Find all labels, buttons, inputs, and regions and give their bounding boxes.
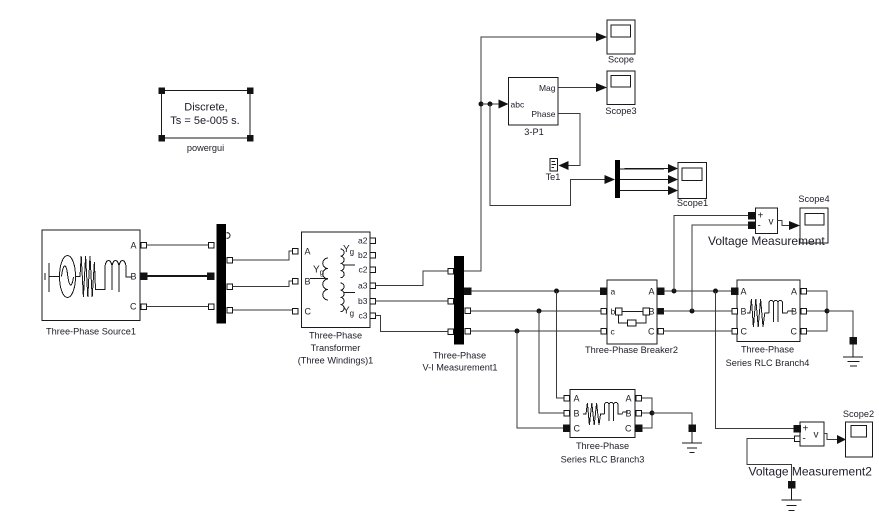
- svg-text:c2: c2: [359, 265, 368, 275]
- svg-text:b3: b3: [358, 296, 368, 306]
- svg-text:Ts = 5e-005 s.: Ts = 5e-005 s.: [170, 115, 239, 127]
- arrow 3 into Scope1: [668, 186, 678, 195]
- VI measurement bar VI1: [454, 256, 464, 345]
- source port A square: [141, 242, 147, 248]
- mux bar M1: [217, 224, 227, 324]
- svg-text:abc: abc: [511, 100, 525, 110]
- VI1 right port C: [465, 328, 471, 334]
- RLC3 port A left square: [564, 395, 570, 401]
- wire RLC3 outputs joined: [642, 398, 652, 428]
- ground G3 symbol: [682, 431, 702, 452]
- svg-text:C: C: [305, 307, 312, 317]
- breaker port B square (filled): [658, 308, 664, 314]
- svg-text:Series RLC Branch4: Series RLC Branch4: [726, 358, 810, 368]
- svg-text:a: a: [611, 287, 616, 297]
- breaker port b square: [601, 308, 607, 314]
- scope block Scope: [607, 20, 635, 54]
- node junction A-line down to VM2: [713, 289, 718, 294]
- wire VM2 output to Scope2: [824, 434, 838, 440]
- svg-text:Mag: Mag: [539, 83, 556, 93]
- node junction c-line to RLC3 C: [515, 329, 520, 334]
- transformer port B square: [292, 278, 298, 284]
- transformer port a2 square: [370, 238, 376, 244]
- breaker block BRK2: [607, 280, 657, 344]
- mux M1 left port A: [208, 242, 214, 248]
- arrow 2 into Scope1: [668, 175, 678, 184]
- powergui selection handles: [159, 88, 253, 141]
- wire breaker A to RLC4 A: [664, 290, 731, 292]
- label Three-Phase V-I Measurement1: [422, 351, 497, 373]
- wire transformer b3 to VI measurement: [375, 300, 448, 302]
- svg-text:c3: c3: [359, 311, 368, 321]
- svg-text:Discrete,: Discrete,: [184, 102, 227, 114]
- breaker port A square (filled): [657, 288, 664, 295]
- RLC4 icon resistor and inductor: [747, 299, 794, 327]
- wire breaker B to RLC4 B: [664, 310, 732, 312]
- scope block Scope4: [800, 208, 828, 243]
- three-phase source block SRC1: [42, 230, 140, 321]
- wire 3-P1 Mag to Scope3: [558, 87, 596, 89]
- wire VI1 C to breaker c: [470, 330, 601, 332]
- wire VM1 output to Scope4: [777, 221, 789, 226]
- wire breaker C to RLC4 C: [664, 330, 732, 332]
- scope block Scope1: [678, 163, 707, 199]
- svg-text:Scope: Scope: [608, 55, 634, 65]
- wire VM1 minus down to B-line: [692, 225, 748, 311]
- mux M1 right port b: [227, 284, 233, 290]
- transformer winding 2 (right top coil): [341, 249, 356, 278]
- svg-text:A: A: [625, 394, 631, 404]
- scope block Scope3: [607, 71, 635, 105]
- VI1 right port B: [465, 308, 471, 314]
- wire mux1 c to transformer C: [232, 310, 292, 311]
- wire transformer c3 to VI measurement: [375, 316, 448, 332]
- wire mux1 b to transformer B: [232, 281, 292, 287]
- label Three-Phase Series RLC Branch3: [561, 441, 645, 465]
- svg-text:A: A: [791, 287, 797, 297]
- wire source A to mux1: [147, 244, 209, 246]
- breaker port C square: [658, 328, 664, 334]
- svg-text:Three-Phase Source1: Three-Phase Source1: [46, 327, 136, 337]
- RLC4 port C left square: [732, 328, 738, 334]
- mux M1 left port C: [208, 304, 214, 310]
- node junction A-line to voltage measurement plus: [672, 289, 677, 294]
- transformer winding 1 (left coil): [310, 258, 328, 300]
- svg-text:Series RLC Branch3: Series RLC Branch3: [561, 455, 645, 465]
- ground G4 symbol: [843, 344, 863, 366]
- svg-text:C: C: [648, 327, 655, 337]
- arrow into Scope2: [837, 435, 846, 444]
- transformer port b3 square: [370, 298, 376, 304]
- svg-text:a2: a2: [358, 236, 368, 246]
- svg-text:3-P1: 3-P1: [524, 127, 543, 137]
- arrow into Scope3: [596, 83, 607, 92]
- RLC4 port B right square: [801, 308, 807, 314]
- 3-P1 block (sequence analyzer): [509, 78, 559, 126]
- svg-text:Te1: Te1: [546, 172, 561, 182]
- svg-text:B: B: [574, 409, 580, 419]
- label Three-Phase Series RLC Branch4: [726, 345, 810, 369]
- VI1 right port A (filled): [464, 288, 471, 295]
- arrow into Scope: [596, 33, 607, 42]
- RLC3 port A right square: [636, 395, 642, 401]
- arrow into Scope4: [789, 221, 800, 230]
- wire VI1 measurement output up to Scope: [464, 37, 596, 271]
- svg-text:b: b: [611, 307, 616, 317]
- svg-text:B: B: [305, 277, 311, 287]
- label Three-Phase Transformer (Three Windings)1: [298, 331, 374, 366]
- ground G3 port square (filled): [689, 425, 696, 432]
- scope block Scope2: [846, 422, 873, 457]
- wire down to RLC3 C: [517, 331, 564, 428]
- node junction RLC3 output: [650, 411, 655, 416]
- RLC3 icon resistor and inductor: [583, 402, 628, 425]
- svg-text:C: C: [791, 327, 798, 337]
- wire branch to 3-P1 abc input: [481, 103, 500, 105]
- VM2 port plus square (filled): [794, 425, 801, 432]
- svg-text:Scope2: Scope2: [843, 409, 874, 419]
- wire mux1 a to transformer A: [232, 251, 292, 260]
- wire RLC3 to ground G3: [652, 413, 692, 425]
- transformer port C square: [292, 308, 298, 314]
- mux M1 left port B (filled): [207, 273, 214, 280]
- RLC4 port B left square: [732, 308, 738, 314]
- demux bar DM1: [615, 160, 620, 198]
- svg-text:Three-Phase Breaker2: Three-Phase Breaker2: [585, 345, 678, 355]
- RLC branch block RLC4: [737, 280, 800, 342]
- VI1 left port a: [448, 268, 454, 274]
- transformer port a3 square: [370, 283, 376, 289]
- wire VM2 minus to ground G2: [747, 439, 794, 482]
- svg-text:Three-Phase: Three-Phase: [433, 351, 486, 361]
- wire demux out 3 to Scope1: [620, 190, 670, 192]
- svg-text:B: B: [130, 272, 136, 282]
- breaker port c square: [601, 328, 607, 334]
- svg-text:Scope4: Scope4: [798, 194, 829, 204]
- VM1 port plus square (filled): [748, 212, 755, 219]
- svg-text:C: C: [625, 424, 632, 434]
- wire demux out 2 to Scope1: [620, 179, 670, 181]
- svg-text:A: A: [130, 241, 136, 251]
- svg-text:Three-Phase: Three-Phase: [576, 441, 629, 451]
- svg-text:A: A: [648, 287, 654, 297]
- arrow into demux: [605, 175, 616, 184]
- source icon: battery bars, AC circle, resistor, inductor: [45, 256, 132, 298]
- mux M1 right port a: [227, 257, 233, 263]
- svg-text:-: -: [803, 434, 806, 445]
- arrow 1 into Scope1: [668, 164, 678, 173]
- wire 3-P1 Phase to Te1: [558, 114, 580, 166]
- node junction at abc branch: [479, 102, 484, 107]
- node junction RLC4 output: [825, 309, 830, 314]
- svg-text:a3: a3: [358, 281, 368, 291]
- svg-text:V-I Measurement1: V-I Measurement1: [422, 363, 497, 373]
- powergui block U_powergui: [162, 91, 251, 139]
- arrow into Te1 (pointing left): [559, 161, 569, 170]
- svg-text:v: v: [769, 217, 774, 228]
- svg-text:b2: b2: [358, 250, 368, 260]
- voltage measurement block VM2: [800, 422, 824, 446]
- wire VI1 B to breaker b: [470, 310, 601, 312]
- wire source C to mux1: [147, 306, 209, 308]
- source port B square (filled): [140, 273, 147, 280]
- arrow into 3-P1 abc: [499, 100, 509, 109]
- VM2 port minus square: [794, 436, 800, 442]
- wire down to RLC3 A: [557, 291, 564, 398]
- svg-text:Scope3: Scope3: [605, 106, 636, 116]
- RLC branch block RLC3: [570, 390, 635, 438]
- wire transformer a3 to VI measurement: [375, 271, 448, 286]
- breaker port a square (filled): [600, 288, 607, 295]
- transformer port A square: [292, 248, 298, 254]
- svg-text:C: C: [574, 424, 581, 434]
- svg-text:A: A: [574, 394, 580, 404]
- node junction a-line to RLC3 A: [554, 289, 559, 294]
- RLC3 port C left square (filled): [563, 425, 570, 432]
- terminator Te1: [550, 159, 558, 172]
- svg-text:Phase: Phase: [531, 109, 555, 119]
- transformer port c2 square: [370, 267, 376, 273]
- transformer port b2 square: [370, 252, 376, 258]
- svg-text:Three-Phase: Three-Phase: [741, 345, 794, 355]
- svg-text:(Three Windings)1: (Three Windings)1: [298, 356, 374, 366]
- svg-text:B: B: [741, 307, 747, 317]
- wire source B to mux1: [147, 275, 207, 277]
- source port C square: [141, 304, 147, 310]
- breaker icon contacts: [616, 308, 650, 326]
- mux M1 top hook: [227, 233, 231, 239]
- svg-text:-: -: [758, 221, 761, 232]
- svg-text:A: A: [305, 247, 311, 257]
- VI1 left port b: [448, 298, 454, 304]
- wire VI1 A to breaker a: [471, 290, 601, 292]
- svg-text:C: C: [741, 327, 748, 337]
- RLC4 port A right square: [801, 288, 807, 294]
- svg-text:A: A: [741, 287, 747, 297]
- svg-text:C: C: [130, 302, 137, 312]
- ground G2 symbol: [782, 488, 802, 511]
- VI1 left port c: [448, 329, 454, 335]
- svg-text:B: B: [625, 409, 631, 419]
- ground G4 port square (filled): [850, 337, 857, 344]
- three-phase transformer block XFMR1: [302, 232, 371, 328]
- RLC3 port B right square: [636, 410, 642, 416]
- wire RLC4 to ground G4: [827, 311, 853, 337]
- transformer port c3 square: [370, 313, 376, 319]
- transformer winding 3 (right bottom coil): [341, 283, 356, 312]
- svg-text:Voltage Measurement2: Voltage Measurement2: [749, 465, 873, 479]
- node junction b-line to RLC3 B: [537, 309, 542, 314]
- wire A-line down to VM2 plus: [716, 291, 794, 429]
- RLC3 port B left square: [564, 410, 570, 416]
- wire up to VM1 plus: [674, 216, 748, 292]
- node junction B-line to voltage measurement minus: [690, 309, 695, 314]
- node junction at demux branch: [488, 102, 493, 107]
- mux M1 right port c: [227, 307, 233, 313]
- wire RLC4 outputs joined: [807, 291, 827, 331]
- RLC3 port C right square (filled): [635, 425, 642, 432]
- voltage measurement block VM1: [755, 208, 777, 234]
- svg-text:Voltage Measurement: Voltage Measurement: [708, 234, 825, 248]
- VM1 port minus square (filled): [748, 222, 755, 229]
- RLC4 port C right square: [801, 328, 807, 334]
- svg-text:powergui: powergui: [187, 143, 224, 153]
- svg-text:Scope1: Scope1: [677, 198, 708, 208]
- svg-text:v: v: [814, 430, 819, 441]
- svg-text:Transformer: Transformer: [311, 343, 361, 353]
- svg-text:Three-Phase: Three-Phase: [309, 331, 362, 341]
- wire down to RLC3 B: [539, 311, 564, 413]
- wire branch down to demux: [490, 104, 605, 206]
- RLC4 port A left square (filled): [731, 288, 738, 295]
- ground G2 port square (filled): [788, 481, 795, 488]
- wire demux out 1 to Scope1: [620, 168, 670, 171]
